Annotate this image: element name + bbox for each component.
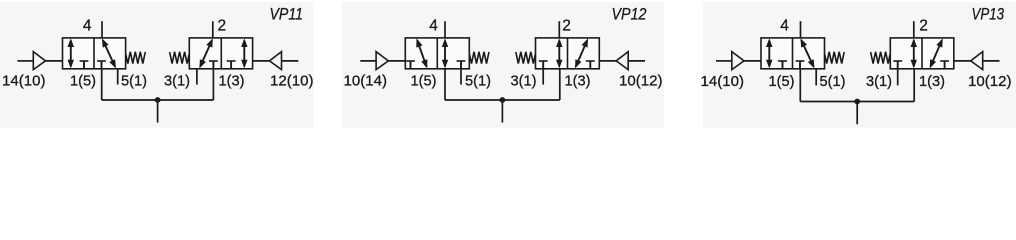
exhaust stub 3(1) — [897, 69, 899, 86]
return spring of VP12 left 3/2 valve — [469, 52, 489, 64]
panel VP11 background — [0, 2, 314, 128]
blocked port T — [940, 61, 949, 69]
pilot triangle (points left) — [616, 52, 628, 70]
wire pilot lead-out — [282, 60, 299, 62]
blocked port T — [209, 61, 218, 69]
wire pilot lead-in — [360, 60, 376, 62]
valve body VP12 left 3/2 valve — [405, 38, 469, 69]
svg-text:VP11: VP11 — [270, 5, 304, 23]
flow path arrow (pass-through) — [241, 38, 248, 68]
port line 4 — [444, 21, 446, 38]
return spring of VP11 right 3/2 valve — [170, 52, 190, 64]
svg-text:VP13: VP13 — [972, 5, 1005, 23]
port stub 1(5) — [101, 69, 103, 100]
svg-text:12(10): 12(10) — [270, 74, 314, 90]
port line 2 — [558, 21, 560, 38]
blocked port T — [778, 61, 787, 69]
wire pilot lead-out — [983, 60, 1000, 62]
blocked port T — [586, 61, 595, 69]
wire bus between valves — [102, 99, 214, 101]
return spring of VP13 left 3/2 valve — [825, 52, 845, 64]
svg-text:4: 4 — [429, 18, 438, 35]
valve body VP13 right 3/2 valve — [890, 38, 954, 69]
svg-text:4: 4 — [83, 18, 92, 35]
svg-text:5(1): 5(1) — [820, 74, 846, 90]
wire valve to triangle — [253, 60, 270, 62]
pilot triangle (points right) — [376, 52, 388, 70]
wire drop from node — [157, 100, 159, 123]
junction node — [854, 99, 860, 105]
port stub 1(3) — [559, 69, 561, 100]
flow path arrow (pass-through) — [766, 38, 773, 68]
wire triangle to valve — [744, 60, 761, 62]
flow path arrow (diagonal) — [199, 38, 212, 68]
wire pilot lead-in — [716, 60, 732, 62]
exhaust stub 5(1) — [117, 69, 119, 85]
pilot triangle (points left) — [270, 52, 282, 70]
flow path arrow (pass-through) — [68, 38, 75, 68]
blocked port T — [97, 61, 106, 69]
svg-text:VP12: VP12 — [612, 5, 647, 23]
wire triangle to valve — [388, 60, 405, 62]
blocked port T — [227, 61, 236, 69]
flow path arrow (diagonal) — [801, 38, 815, 68]
svg-text:1(3): 1(3) — [219, 74, 245, 90]
svg-text:10(12): 10(12) — [619, 74, 663, 90]
svg-text:1(3): 1(3) — [919, 74, 945, 90]
blocked port T — [80, 61, 89, 69]
blocked port T — [539, 61, 548, 69]
flow path arrow (diagonal) — [930, 38, 943, 68]
pilot triangle (points right) — [33, 52, 45, 70]
flow path arrow (pass-through) — [911, 38, 918, 68]
port line 2 — [913, 21, 915, 38]
wire bus between valves — [445, 99, 560, 101]
blocked port T — [893, 61, 902, 69]
port stub 1(3) — [212, 69, 214, 100]
junction node — [155, 97, 161, 103]
blocked port T — [796, 61, 805, 69]
svg-text:3(1): 3(1) — [164, 74, 190, 90]
svg-text:10(14): 10(14) — [344, 74, 388, 90]
valve body VP13 left 3/2 valve — [761, 38, 825, 69]
svg-text:14(10): 14(10) — [2, 74, 46, 90]
wire drop from node — [501, 100, 503, 123]
svg-text:4: 4 — [780, 18, 789, 35]
pilot triangle (points left) — [971, 52, 983, 70]
svg-text:5(1): 5(1) — [121, 74, 147, 90]
flow path arrow (diagonal) — [102, 38, 116, 68]
wire pilot lead-in — [18, 60, 34, 62]
svg-text:1(3): 1(3) — [565, 74, 591, 90]
return spring of VP13 right 3/2 valve — [871, 52, 891, 64]
wire drop from node — [856, 102, 858, 125]
port stub 1(5) — [444, 69, 446, 100]
flow path arrow (diagonal) — [416, 38, 427, 68]
flow path arrow (pass-through) — [556, 38, 563, 68]
svg-text:1(5): 1(5) — [411, 74, 437, 90]
svg-text:3(1): 3(1) — [511, 74, 537, 90]
valve body VP12 right 3/2 valve — [536, 38, 600, 69]
wire valve to triangle — [599, 60, 616, 62]
svg-text:10(12): 10(12) — [968, 74, 1012, 90]
exhaust stub 5(1) — [460, 69, 462, 85]
wire valve to triangle — [954, 60, 971, 62]
port stub 1(5) — [799, 69, 801, 102]
flow path arrow (pass-through) — [442, 38, 448, 68]
port line 4 — [101, 21, 103, 38]
wire triangle to valve — [46, 60, 63, 62]
panel VP13 background — [703, 2, 1016, 128]
port stub 1(3) — [913, 69, 915, 102]
return spring of VP12 right 3/2 valve — [516, 52, 536, 64]
flow path arrow (diagonal) — [575, 38, 588, 68]
svg-text:2: 2 — [562, 18, 571, 35]
panel VP12 background — [342, 2, 664, 128]
svg-text:5(1): 5(1) — [465, 74, 491, 90]
return spring of VP11 left 3/2 valve — [126, 52, 146, 64]
junction node — [500, 97, 506, 103]
exhaust stub 3(1) — [542, 69, 544, 85]
pilot triangle (points right) — [732, 52, 744, 70]
exhaust stub 3(1) — [196, 69, 198, 85]
svg-text:1(5): 1(5) — [70, 74, 96, 90]
wire pilot lead-out — [628, 60, 645, 62]
port line 2 — [212, 21, 214, 38]
valve body VP11 right 3/2 valve — [189, 38, 252, 69]
blocked port T — [457, 61, 466, 69]
svg-text:1(5): 1(5) — [769, 74, 795, 90]
blocked port T — [406, 61, 415, 69]
svg-text:2: 2 — [218, 18, 227, 35]
svg-text:14(10): 14(10) — [701, 74, 745, 90]
exhaust stub 5(1) — [815, 69, 817, 86]
svg-text:3(1): 3(1) — [866, 74, 892, 90]
svg-text:2: 2 — [919, 18, 928, 35]
valve body VP11 left 3/2 valve — [63, 38, 126, 69]
port line 4 — [800, 21, 802, 38]
wire bus between valves — [800, 101, 914, 103]
